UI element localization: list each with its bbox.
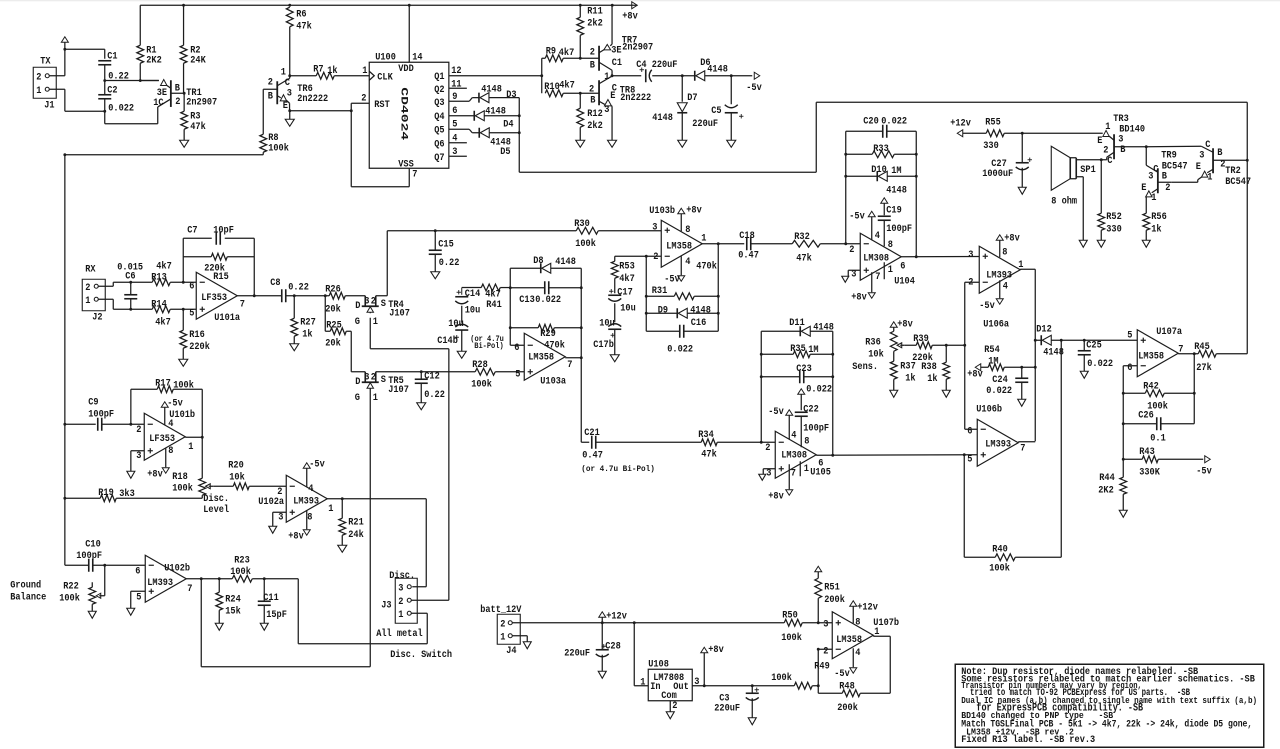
svg-text:D7: D7: [687, 93, 697, 104]
svg-text:2: 2: [500, 619, 505, 630]
junction TR1 base: [183, 92, 186, 95]
svg-text:C17b: C17b: [593, 339, 614, 351]
wire out to feedback block: [717, 244, 719, 332]
wire C21 to R34: [596, 441, 701, 443]
junction C1-C2: [103, 79, 106, 82]
junction U108 in: [633, 621, 636, 624]
svg-text:2: 2: [765, 443, 770, 454]
capacitor C12: [420, 372, 422, 380]
wire D12 cathode to R40: [1060, 340, 1062, 557]
wire U108 com ground: [669, 701, 671, 712]
junction sens to U106: [963, 344, 966, 347]
svg-text:R25: R25: [326, 320, 342, 331]
resistor R12: [579, 93, 581, 108]
wire J1 pin1: [49, 88, 65, 90]
svg-text:-5v: -5v: [746, 83, 762, 94]
svg-text:-5v: -5v: [309, 459, 325, 470]
svg-text:+8v: +8v: [288, 531, 304, 542]
svg-text:2: 2: [36, 72, 41, 83]
ground U104 pin3: [848, 269, 860, 271]
svg-text:470k: 470k: [544, 339, 565, 351]
wire C1 top: [65, 48, 105, 50]
svg-text:5: 5: [967, 454, 972, 465]
svg-text:R14: R14: [151, 299, 167, 310]
svg-text:R26: R26: [325, 284, 341, 295]
svg-text:J1: J1: [44, 100, 54, 111]
svg-text:3: 3: [968, 250, 973, 261]
wire D6 to -5v: [705, 75, 753, 77]
capacitor C9 100pF: [65, 423, 96, 425]
wire U102a out to J3 pin3: [425, 499, 427, 587]
resistor R10: [545, 90, 563, 97]
svg-text:100k: 100k: [230, 566, 251, 578]
resistor R24 15k: [218, 579, 220, 593]
svg-text:3: 3: [1199, 150, 1204, 161]
svg-text:2n2907: 2n2907: [186, 97, 217, 108]
svg-text:1: 1: [36, 86, 41, 97]
wire TR4 source to C15 row: [376, 295, 388, 297]
svg-text:1C: 1C: [153, 98, 163, 109]
svg-text:2k2: 2k2: [587, 120, 603, 132]
svg-text:220uF: 220uF: [564, 648, 590, 659]
wire C18 to R32: [751, 243, 792, 245]
ground U101b pin3: [131, 450, 144, 452]
svg-text:Fixed R13 label. -SB rev.3: Fixed R13 label. -SB rev.3: [961, 734, 1095, 746]
svg-text:0.022: 0.022: [667, 344, 693, 355]
wire U107a output: [1178, 353, 1198, 355]
svg-text:C18: C18: [739, 231, 755, 242]
junction R1 bottom: [139, 79, 142, 82]
diode D10 4148: [846, 175, 878, 177]
svg-text:2: 2: [136, 425, 141, 436]
svg-text:B: B: [1120, 145, 1125, 156]
junction D9 left: [645, 312, 648, 315]
svg-text:+8v: +8v: [897, 319, 913, 330]
ground C24: [1018, 399, 1026, 406]
svg-text:1: 1: [398, 610, 403, 621]
pin1 stub U104: [883, 262, 885, 279]
svg-text:24K: 24K: [190, 55, 206, 66]
junction R43: [1122, 458, 1125, 461]
junction R49: [817, 684, 820, 687]
svg-text:2: 2: [589, 84, 594, 95]
junction C6 bottom: [129, 308, 132, 311]
wire TR6 emitter to RST: [290, 110, 352, 112]
svg-text:3: 3: [604, 105, 609, 116]
svg-text:U102a: U102a: [258, 497, 284, 508]
svg-text:C15: C15: [438, 239, 454, 250]
ground R52: [1097, 240, 1105, 247]
svg-text:C28: C28: [605, 641, 621, 652]
svg-text:R24: R24: [225, 594, 241, 605]
wire output feedback vertical: [1193, 354, 1195, 424]
svg-text:E: E: [1196, 162, 1201, 173]
wire D8 right: [580, 268, 582, 288]
svg-text:8: 8: [307, 512, 312, 523]
capacitor C6: [130, 282, 132, 295]
wire D8 block right vertical: [580, 288, 582, 358]
svg-text:2: 2: [268, 77, 273, 88]
junction U103b minus: [645, 255, 648, 258]
IC U100 CD4024: [369, 62, 449, 168]
svg-text:-5v: -5v: [834, 669, 850, 680]
svg-text:8 ohm: 8 ohm: [1051, 195, 1077, 207]
op-amp U101a LF353: [196, 272, 237, 319]
svg-text:2: 2: [361, 93, 366, 104]
wire U101b output: [185, 436, 202, 438]
capacitor C15: [434, 231, 436, 251]
svg-text:3E: 3E: [611, 45, 621, 56]
ground R12: [576, 140, 585, 147]
svg-text:7: 7: [240, 299, 245, 310]
svg-text:(or 4.7u Bi-Pol): (or 4.7u Bi-Pol): [581, 465, 655, 474]
junction R35 left: [760, 353, 763, 356]
svg-text:100pF: 100pF: [803, 423, 829, 434]
svg-text:C26: C26: [1138, 410, 1154, 421]
svg-text:3: 3: [278, 512, 283, 523]
junction C26 left: [1122, 422, 1125, 425]
svg-text:C: C: [285, 78, 290, 89]
svg-text:8: 8: [888, 240, 893, 251]
svg-text:1: 1: [373, 317, 378, 328]
svg-text:D8: D8: [533, 256, 543, 267]
svg-text:1: 1: [804, 464, 809, 475]
svg-text:E: E: [1141, 183, 1146, 194]
svg-text:2: 2: [371, 296, 376, 307]
svg-text:4k7: 4k7: [559, 47, 575, 59]
svg-text:+12v: +12v: [606, 611, 627, 622]
svg-text:U104: U104: [894, 276, 915, 287]
wire U103b minus: [646, 255, 661, 257]
wire U102a output: [327, 498, 426, 500]
svg-text:-5v: -5v: [1196, 466, 1212, 477]
junction R27 top: [293, 294, 296, 297]
svg-text:R43: R43: [1139, 447, 1155, 458]
svg-text:C14b: C14b: [437, 335, 458, 347]
ground C15: [431, 272, 440, 279]
junction D10 left: [844, 175, 847, 178]
svg-text:R17: R17: [155, 378, 171, 389]
power arrow -5v U102a: [303, 463, 310, 469]
wire J3 pin1: [411, 612, 427, 614]
power arrow ground TX: [61, 37, 68, 43]
svg-text:C20: C20: [863, 116, 879, 127]
power arrow R51 top: [815, 566, 822, 572]
pin1 stub U105: [799, 461, 801, 476]
svg-text:CLK: CLK: [377, 72, 393, 83]
diode D9 4148: [646, 312, 677, 314]
power arrow +8v U104: [871, 272, 873, 292]
svg-text:4148: 4148: [481, 84, 502, 95]
svg-text:1k: 1k: [905, 372, 915, 384]
junction R29 left: [509, 326, 512, 329]
svg-text:100pF: 100pF: [88, 409, 114, 420]
wire C7 feedback loop: [182, 238, 184, 282]
svg-text:C1: C1: [107, 51, 117, 62]
svg-text:BC547: BC547: [1162, 161, 1188, 172]
potentiometer R22 100k: [91, 582, 93, 587]
op-amp U105 LM308: [775, 431, 816, 478]
junction C27: [1021, 132, 1024, 135]
potentiometer R36 10k sens: [890, 322, 897, 328]
wire U101a output: [237, 295, 281, 297]
svg-text:D12: D12: [1036, 324, 1052, 335]
svg-text:E: E: [283, 101, 288, 112]
op-amp U101b LF353: [144, 413, 185, 460]
wire R48 to output: [889, 636, 891, 693]
resistor R49 100k: [794, 682, 812, 689]
junction R25 branch: [324, 294, 327, 297]
resistor R32 47k: [792, 240, 820, 247]
wire R36 wiper to R39: [904, 344, 916, 346]
wire SP1 bottom terminal: [1076, 176, 1083, 178]
svg-text:1: 1: [281, 67, 286, 78]
junction U102a out: [341, 497, 344, 500]
note box: [955, 664, 1264, 747]
wire J2 pin2: [98, 285, 113, 287]
wire U102b output: [186, 578, 232, 580]
svg-text:B: B: [590, 95, 595, 106]
op-amp U106b LM393: [977, 419, 1018, 466]
transistor TR2 BC547: [1212, 148, 1214, 173]
svg-text:LM308: LM308: [863, 253, 889, 264]
power arrow +8v: [701, 647, 708, 653]
svg-text:1: 1: [1207, 172, 1212, 183]
power arrow -5v U104: [868, 211, 875, 217]
power arrow +12v R55: [957, 130, 963, 137]
svg-text:S: S: [381, 375, 386, 386]
svg-text:3: 3: [1148, 171, 1153, 182]
wire U103a out: [565, 357, 581, 359]
resistor R56 1k: [1143, 213, 1150, 230]
ground C11: [260, 623, 268, 630]
op-amp U106a LM393: [979, 246, 1020, 293]
ground C5: [727, 140, 736, 147]
svg-text:2k2: 2k2: [587, 17, 603, 29]
svg-text:C8: C8: [270, 278, 280, 289]
junction C28: [601, 621, 604, 624]
svg-text:R38: R38: [921, 362, 937, 373]
resistor R27: [293, 296, 295, 319]
resistor R13: [131, 281, 153, 283]
svg-text:C12: C12: [424, 371, 440, 382]
resistor R53 4k7: [615, 255, 647, 257]
wire C2 to TR1 collector: [104, 111, 106, 124]
svg-text:15pF: 15pF: [266, 610, 287, 621]
ground R37: [890, 390, 898, 397]
svg-text:R11: R11: [587, 6, 603, 17]
junction U103b out: [717, 242, 720, 245]
svg-text:C25: C25: [1086, 340, 1102, 351]
svg-text:7: 7: [791, 468, 796, 479]
junction R33 right: [915, 153, 918, 156]
svg-text:5: 5: [515, 369, 520, 380]
svg-text:LM393: LM393: [986, 270, 1012, 281]
svg-text:6: 6: [1127, 363, 1132, 374]
junction TR7 emitter: [611, 4, 614, 7]
svg-text:3: 3: [364, 372, 369, 383]
ground R22: [88, 611, 96, 618]
wire U106a output: [1020, 268, 1035, 270]
svg-text:47k: 47k: [796, 252, 812, 264]
svg-text:0.22: 0.22: [439, 258, 460, 269]
capacitor C26 0.1: [1123, 423, 1157, 425]
wire RST loop: [351, 102, 369, 104]
svg-text:220k: 220k: [189, 341, 210, 353]
svg-text:4k7: 4k7: [155, 316, 171, 328]
svg-text:4k7: 4k7: [559, 79, 575, 91]
wire D12 to C25 and U107a: [1061, 339, 1137, 341]
svg-text:R15: R15: [213, 272, 229, 283]
svg-text:8: 8: [804, 436, 809, 447]
speaker SP1: [1051, 146, 1070, 190]
svg-text:2n2907: 2n2907: [622, 42, 653, 53]
junction TR6 emitter: [288, 109, 291, 112]
ground C28: [598, 671, 606, 678]
svg-text:2: 2: [849, 245, 854, 256]
ground C3: [748, 718, 756, 725]
svg-text:R10: R10: [544, 82, 560, 93]
junction C13 right: [580, 286, 583, 289]
svg-text:LM358: LM358: [666, 241, 692, 252]
junction TR6 collector: [288, 74, 291, 77]
svg-text:0.47: 0.47: [738, 250, 759, 261]
capacitor C13 0.022: [510, 287, 544, 289]
svg-text:0.022: 0.022: [986, 386, 1012, 397]
svg-text:Q4: Q4: [434, 112, 444, 123]
svg-text:B: B: [268, 91, 273, 102]
svg-text:3: 3: [364, 296, 369, 307]
svg-text:G: G: [355, 393, 360, 404]
svg-text:Disc.: Disc.: [203, 493, 229, 505]
svg-text:15k: 15k: [225, 605, 241, 617]
svg-text:C21: C21: [584, 428, 600, 439]
svg-text:20k: 20k: [325, 303, 341, 315]
capacitor C17 10u: [614, 278, 616, 293]
junction U100 VDD: [408, 4, 411, 7]
resistor R11: [579, 5, 581, 17]
svg-text:C9: C9: [88, 397, 98, 408]
svg-text:330K: 330K: [1139, 467, 1160, 478]
junction RST-emitter: [350, 109, 353, 112]
junction R42 left: [1122, 392, 1125, 395]
svg-text:All metal: All metal: [376, 628, 422, 640]
svg-text:Q1: Q1: [434, 72, 444, 83]
svg-text:R53: R53: [619, 261, 635, 272]
ground R3: [180, 140, 189, 147]
svg-text:0.022: 0.022: [1087, 359, 1113, 370]
potentiometer R18 100k: [201, 437, 203, 478]
svg-text:R9: R9: [546, 46, 556, 57]
wire U105 output: [816, 454, 977, 457]
ground R38: [942, 390, 950, 397]
svg-text:R56: R56: [1151, 212, 1167, 223]
svg-text:100pF: 100pF: [76, 551, 102, 562]
resistor R45 27k: [1198, 350, 1216, 357]
svg-text:BC547: BC547: [1225, 177, 1251, 188]
svg-text:R3: R3: [190, 111, 200, 122]
svg-text:4148: 4148: [813, 322, 834, 333]
wire C2 bottom: [104, 99, 106, 112]
resistor R39 220k: [916, 342, 932, 349]
svg-text:100k: 100k: [59, 592, 80, 604]
svg-text:100k: 100k: [989, 562, 1010, 574]
junction R9-R11-TR7base: [579, 57, 582, 60]
junction R41-D8: [509, 286, 512, 289]
resistor R51 200k: [817, 572, 819, 579]
svg-text:C17: C17: [617, 287, 633, 298]
svg-text:4: 4: [791, 430, 796, 441]
wire U106a minus loop: [965, 281, 980, 283]
wire to U103a minus: [509, 328, 511, 346]
capacitor C21 0.47: [591, 436, 593, 449]
svg-text:8: 8: [168, 446, 173, 457]
svg-text:Sens.: Sens.: [852, 362, 878, 373]
svg-text:4k7: 4k7: [619, 273, 635, 285]
svg-text:C24: C24: [992, 375, 1008, 386]
svg-text:4148: 4148: [707, 64, 728, 75]
svg-text:+12v: +12v: [950, 118, 971, 129]
IC U108 LM7808: [648, 669, 692, 701]
svg-text:27k: 27k: [1196, 362, 1212, 374]
wire U104 output: [901, 256, 979, 258]
svg-text:C5: C5: [711, 106, 721, 117]
svg-text:R31: R31: [652, 286, 668, 297]
svg-text:LM308: LM308: [781, 450, 807, 461]
capacitor C5 220uF: [730, 76, 732, 105]
svg-text:2: 2: [1103, 145, 1108, 156]
svg-text:U103a: U103a: [540, 376, 566, 387]
wire U103b output: [702, 243, 744, 245]
svg-text:10u: 10u: [599, 318, 615, 329]
junction U107a out: [1193, 352, 1196, 355]
ground R21: [338, 545, 347, 552]
junction C2 bottom: [103, 110, 106, 113]
wire TR5 source row: [376, 371, 476, 373]
wire TR4 gate to J3 pin2: [369, 318, 371, 349]
svg-text:100k: 100k: [172, 482, 193, 494]
power arrow +8v U105: [788, 464, 790, 489]
svg-text:S: S: [381, 299, 386, 310]
op-amp U103b LM358: [661, 220, 702, 267]
svg-text:7: 7: [875, 272, 880, 283]
resistor R1: [139, 5, 141, 45]
junction R38 top: [945, 344, 948, 347]
junction +8v arrow: [703, 684, 706, 687]
svg-text:4: 4: [685, 257, 690, 268]
svg-text:10u: 10u: [465, 305, 481, 316]
power arrow -5v R43: [1205, 456, 1211, 463]
svg-text:R29: R29: [540, 329, 556, 340]
svg-text:4: 4: [1003, 281, 1008, 292]
svg-text:6: 6: [900, 261, 905, 272]
op-amp U102a LM393: [286, 475, 327, 522]
svg-text:+8v: +8v: [708, 645, 724, 656]
svg-text:C: C: [612, 83, 617, 94]
svg-text:7: 7: [567, 360, 572, 371]
junction C23 left: [760, 375, 763, 378]
svg-text:Q6: Q6: [434, 139, 444, 150]
svg-text:C: C: [1205, 140, 1210, 151]
capacitor C19 100pF: [878, 215, 891, 217]
junction C9 left: [63, 423, 66, 426]
power arrow -5v U105: [786, 410, 793, 416]
capacitor C16 0.022: [646, 330, 679, 332]
svg-text:D: D: [355, 377, 360, 388]
junction C10-R22: [103, 564, 106, 567]
capacitor C1: [98, 60, 111, 62]
svg-text:7: 7: [187, 584, 192, 595]
